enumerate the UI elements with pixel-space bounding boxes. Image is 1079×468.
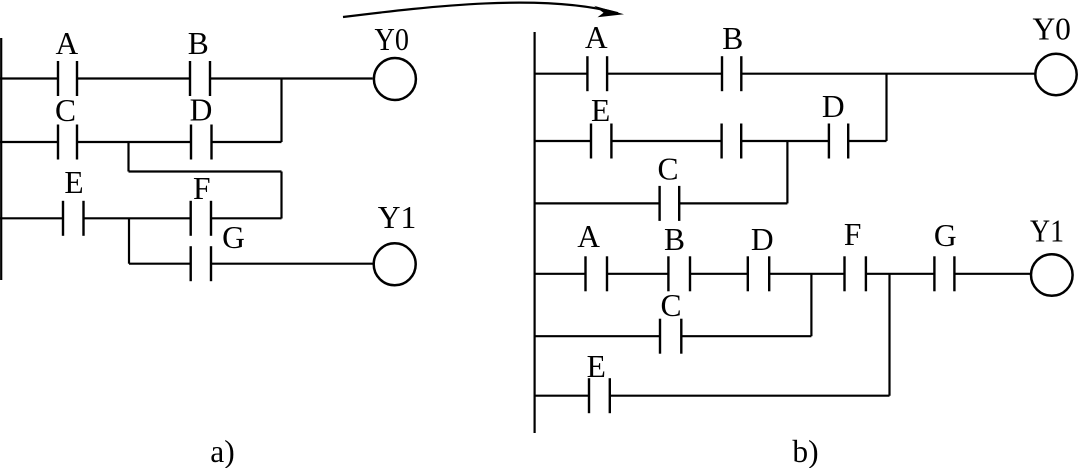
wire node after F drop to E branch (b) [888, 274, 890, 396]
wire branch join E-D to rung1 (b) [885, 74, 887, 141]
contact C (b, branch 5) [660, 319, 681, 354]
wire rail to contact E (a) [0, 217, 63, 219]
wire rail to contact E (b rung6) [535, 395, 590, 397]
svg-text:E: E [587, 349, 606, 384]
wire cross link drop to rung E-F (a) [280, 172, 282, 219]
svg-text:G: G [222, 220, 245, 255]
wire cross link horizontal (a) [129, 170, 282, 172]
wire node after C drop (a) [127, 142, 129, 172]
wire contact E to node after F (b rung6) [610, 395, 890, 397]
contact C (a, parallel branch) [58, 125, 77, 160]
wire contact G to coil Y1 (a) [211, 263, 373, 265]
wire contact B to coil Y0 (b) [741, 73, 1035, 75]
svg-text:E: E [591, 93, 610, 128]
contact unlabeled middle (b, branch 2) [722, 124, 742, 159]
contact G (b, rung Y1) [934, 256, 954, 291]
svg-text:B: B [722, 21, 743, 56]
wire node after D drop to C branch (b) [810, 274, 812, 336]
contact B (b, rung Y0) [722, 56, 741, 91]
svg-text:Y1: Y1 [378, 200, 417, 235]
wire node before D drop (b) [786, 141, 788, 203]
wire contact B to coil Y0 (a) [210, 77, 373, 79]
svg-text:b): b) [792, 434, 818, 468]
left power rail (diagram a) [0, 38, 2, 280]
wire contact B to contact D (b rung Y1) [690, 273, 748, 275]
contact A (a, rung Y0) [58, 61, 77, 96]
svg-text:Y0: Y0 [1032, 12, 1071, 47]
contact E (b, branch 2) [591, 124, 611, 159]
transform arrow a to b [343, 3, 624, 18]
contact B (b, rung Y1) [668, 256, 690, 291]
output coil Y0 (a) [374, 58, 416, 100]
output coil Y1 (a) [374, 243, 416, 285]
contact F (a, rung Y1) [191, 201, 211, 236]
svg-text:A: A [577, 219, 600, 254]
output coil Y0 (b) [1035, 54, 1076, 95]
svg-text:Y0: Y0 [374, 22, 409, 57]
contact D (a, parallel branch) [191, 125, 212, 160]
svg-text:E: E [64, 165, 83, 200]
wire node after E drop (a) [128, 218, 130, 263]
left power rail (diagram b) [533, 32, 535, 433]
contact E (b, branch 6) [589, 378, 610, 413]
contact F (b, rung Y1) [845, 256, 866, 291]
svg-text:C: C [660, 288, 681, 323]
wire contact C to node after D (b rung5) [681, 335, 811, 337]
wire contact D to node after B (a) [212, 141, 282, 143]
wire contact G to coil Y1 (b) [954, 273, 1030, 275]
wire contact E to contact F (a) [84, 217, 191, 219]
contact C (b, branch 3) [660, 186, 680, 221]
svg-text:B: B [188, 26, 209, 61]
wire contact E to middle contact (b rung2) [611, 140, 721, 142]
wire contact D to contact F (b rung Y1) [769, 273, 844, 275]
svg-text:a): a) [210, 434, 234, 468]
svg-text:D: D [751, 222, 774, 257]
svg-text:G: G [934, 218, 957, 253]
wire contact F to cross link (a) [211, 217, 282, 219]
svg-text:A: A [56, 26, 79, 61]
wire rail to contact E (b rung2) [535, 140, 592, 142]
wire contact D to branch join (b rung2) [848, 140, 886, 142]
svg-text:F: F [193, 171, 211, 206]
wire contact C to node before D (b) [679, 202, 787, 204]
contact D (b, branch 2) [829, 124, 848, 159]
wire rail to contact C (b rung3) [535, 202, 660, 204]
contact D (b, rung Y1) [748, 256, 769, 291]
wire middle contact to contact D (b rung2) [741, 140, 829, 142]
output coil Y1 (b) [1031, 254, 1073, 296]
contact A (b, rung Y0) [587, 56, 607, 91]
contact G (a, parallel below F) [191, 246, 211, 281]
svg-text:D: D [190, 93, 213, 128]
svg-text:A: A [585, 20, 608, 55]
wire branch to contact G (a) [129, 263, 191, 265]
wire contact C to contact D (a) [77, 141, 191, 143]
wire rail to contact A (b rung Y1) [535, 273, 586, 275]
svg-text:D: D [822, 89, 845, 124]
wire rail to contact C (b rung5) [535, 335, 661, 337]
wire contact A to contact B (a) [77, 77, 190, 79]
wire contact A to contact B (b rung1) [607, 73, 722, 75]
svg-text:Y1: Y1 [1030, 213, 1064, 248]
contact B (a, rung Y0) [190, 61, 210, 96]
wire vertical branch join after B (a) [280, 79, 282, 143]
contact A (b, rung Y1) [586, 256, 608, 291]
wire rail to contact A (b rung1) [535, 73, 588, 75]
contact E (a, rung Y1) [63, 201, 84, 236]
wire rail to contact A (a) [0, 77, 58, 79]
wire contact F to contact G (b rung Y1) [866, 273, 935, 275]
svg-text:C: C [55, 93, 76, 128]
wire rail to contact C (a) [0, 141, 58, 143]
wire contact A to contact B (b rung Y1) [607, 273, 668, 275]
svg-text:B: B [664, 222, 685, 257]
svg-text:F: F [844, 217, 862, 252]
svg-text:C: C [657, 152, 678, 187]
